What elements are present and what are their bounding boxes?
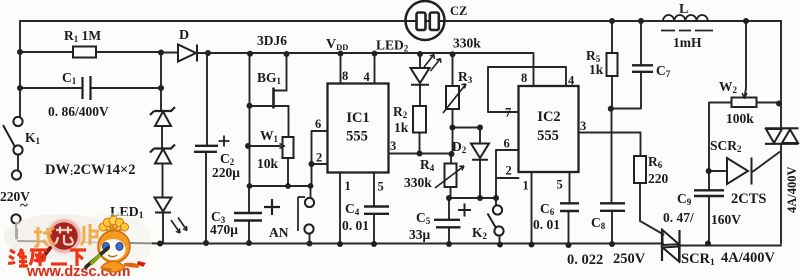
wire C9 column	[708, 171, 710, 244]
diode D2	[471, 144, 489, 160]
wire AN column	[310, 186, 311, 244]
svg-text:W1: W1	[260, 128, 279, 144]
svg-text:C4: C4	[345, 201, 360, 217]
wire IC2 pin3 to R6	[579, 133, 641, 157]
watermark logo	[4, 213, 152, 280]
LED LED1	[155, 198, 172, 213]
capacitor C8	[600, 203, 625, 211]
potentiometer W2	[732, 98, 757, 108]
svg-text:IC1: IC1	[346, 110, 369, 126]
wire C7 column	[640, 21, 642, 108]
wire C3 column	[248, 186, 250, 243]
svg-text:2: 2	[506, 164, 512, 178]
resistor R1	[73, 47, 96, 58]
wire R5 column	[611, 21, 613, 109]
magnifier glass	[49, 221, 80, 252]
thyristor SCR2	[727, 158, 752, 185]
wire R4 bottom	[450, 187, 452, 198]
svg-text:220: 220	[648, 171, 669, 186]
wire IC2 pins 2-6	[496, 150, 519, 198]
svg-text:1mH: 1mH	[673, 35, 702, 50]
capacitor C4	[364, 207, 389, 214]
zener DW1	[150, 107, 175, 115]
svg-text:220μ: 220μ	[212, 165, 240, 180]
wire R2 bottom	[419, 133, 421, 154]
wire K2 leads	[496, 198, 500, 245]
svg-text:C7: C7	[656, 63, 671, 79]
svg-text:3: 3	[580, 119, 586, 133]
potentiometer R3	[446, 86, 459, 109]
capacitor C5	[434, 220, 461, 228]
potentiometer W1	[283, 137, 294, 158]
svg-text:R6: R6	[648, 154, 663, 170]
inductor L	[663, 15, 708, 21]
wire IC1 pins 2-6	[312, 131, 328, 186]
svg-text:0. 86/400V: 0. 86/400V	[48, 104, 109, 119]
polarity plus signs	[219, 136, 472, 217]
svg-text:C1: C1	[62, 70, 77, 86]
svg-text:3: 3	[390, 139, 396, 153]
wire C2 column	[206, 53, 207, 243]
svg-text:160V: 160V	[711, 212, 741, 227]
svg-text:6: 6	[315, 117, 321, 131]
wire IC1 pin4	[374, 53, 376, 84]
svg-text:K1: K1	[25, 130, 41, 146]
svg-text:C8: C8	[591, 215, 606, 231]
wire W1 bottom	[287, 158, 289, 186]
svg-text:555: 555	[537, 128, 559, 144]
resistor R2	[413, 106, 426, 133]
wire R3 D2 link	[453, 127, 481, 129]
svg-text:7: 7	[505, 106, 511, 120]
svg-text:1k: 1k	[394, 120, 409, 135]
svg-text:D2: D2	[452, 139, 467, 155]
svg-text:250V: 250V	[613, 251, 646, 267]
wire D2 column	[479, 128, 481, 199]
svg-text:100k: 100k	[726, 111, 754, 126]
svg-text:~: ~	[20, 198, 28, 214]
capacitor C6	[560, 203, 579, 211]
wire zener column	[161, 88, 163, 244]
svg-text:555: 555	[346, 129, 368, 145]
capacitor C1	[83, 76, 91, 100]
svg-text:4: 4	[568, 74, 575, 88]
wire W2 wiper from rail	[745, 21, 747, 98]
svg-text:2: 2	[316, 151, 322, 165]
svg-text:C5: C5	[416, 210, 431, 226]
svg-text:0. 022: 0. 022	[567, 252, 603, 268]
zener DW2	[150, 145, 175, 153]
wire R1 row	[20, 51, 161, 53]
wire IC2 pin8	[533, 55, 535, 87]
wire R3 column	[451, 55, 453, 164]
capacitor C9	[694, 190, 724, 196]
wire C8 column	[611, 109, 614, 244]
svg-text:C6: C6	[540, 201, 555, 217]
IC IC2 555	[519, 86, 579, 172]
wire K1 top link	[17, 155, 19, 170]
wire LED2 column	[419, 54, 421, 106]
switch K2	[493, 205, 502, 214]
svg-text:5: 5	[557, 178, 563, 192]
svg-text:4A/400V: 4A/400V	[721, 250, 776, 266]
wire top rail	[20, 20, 781, 22]
svg-text:W2: W2	[719, 79, 738, 95]
switch K1	[13, 117, 22, 126]
wire main VDD rail	[161, 52, 534, 88]
resistor R5	[607, 53, 618, 76]
svg-text:IC2: IC2	[537, 109, 560, 125]
svg-text:R2: R2	[393, 104, 408, 120]
svg-text:SCR2: SCR2	[710, 138, 742, 154]
capacitor C3	[234, 213, 262, 221]
svg-text:2CTS: 2CTS	[731, 191, 766, 207]
svg-text:330k: 330k	[453, 36, 481, 51]
wire right edge	[780, 21, 782, 244]
wire gate column	[249, 54, 251, 186]
svg-text:0. 47/: 0. 47/	[663, 210, 694, 225]
svg-text:LED2: LED2	[376, 38, 409, 54]
svg-text:8: 8	[342, 69, 348, 83]
svg-text:1: 1	[523, 179, 529, 193]
svg-text:3DJ6: 3DJ6	[257, 33, 287, 48]
wire W2 left lead	[709, 103, 732, 171]
wire K1 bottom link	[15, 224, 17, 239]
transistor BG1	[272, 88, 275, 109]
svg-text:R4: R4	[420, 157, 435, 173]
svg-text:0. 01: 0. 01	[342, 218, 369, 233]
svg-text:C9: C9	[677, 191, 692, 207]
wire IC1 pin8	[340, 53, 342, 84]
wire IC2 pins 4-7	[488, 67, 566, 112]
wire W1 wiper branch	[248, 145, 279, 147]
svg-text:470μ: 470μ	[210, 222, 238, 237]
svg-text:10k: 10k	[257, 156, 279, 171]
wire bottom rail	[17, 229, 781, 246]
svg-text:VDD: VDD	[326, 37, 348, 52]
svg-text:1: 1	[345, 179, 351, 193]
svg-text:33μ: 33μ	[409, 227, 431, 242]
wire left vertical	[19, 21, 21, 117]
triac SCR1	[662, 229, 680, 263]
weiku text	[8, 249, 86, 266]
svg-text:0. 01: 0. 01	[533, 217, 560, 232]
pian char	[81, 224, 99, 245]
diode D	[178, 45, 197, 62]
svg-text:330k: 330k	[404, 175, 432, 190]
wire IC2 pin1	[531, 172, 533, 245]
resistor R6	[634, 156, 646, 183]
wire node row y186	[250, 185, 312, 187]
svg-text:SCR1: SCR1	[681, 251, 715, 268]
svg-text:BG1: BG1	[257, 70, 282, 86]
svg-text:1k: 1k	[589, 62, 604, 77]
wire R6 to SCR1 gate	[640, 183, 664, 235]
svg-text:R3: R3	[458, 69, 473, 85]
svg-text:4A/400V: 4A/400V	[785, 166, 799, 213]
zhao char	[34, 227, 55, 246]
pushbutton AN	[305, 198, 314, 207]
svg-text:DW:2CW14×2: DW:2CW14×2	[45, 162, 136, 178]
svg-text:6: 6	[504, 137, 510, 151]
mascot	[86, 216, 146, 272]
wire IC1 pin1	[339, 173, 341, 245]
wire IC1 pin5 C4	[373, 173, 375, 245]
capacitor C7	[632, 65, 653, 72]
triac 2CTS	[765, 128, 799, 144]
wire IC2 pin5 C6	[569, 172, 570, 245]
wire C5 column	[448, 198, 450, 244]
LED LED2	[411, 68, 430, 85]
wire IC1 pin3 row	[389, 153, 452, 155]
svg-text:K2: K2	[472, 225, 488, 241]
wire BG1 leads	[249, 54, 289, 137]
socket CZ	[406, 1, 445, 40]
svg-text:CZ: CZ	[450, 4, 467, 18]
IC IC1 555	[328, 84, 389, 173]
wire C7-R5 link	[611, 108, 641, 110]
svg-text:4: 4	[364, 70, 371, 84]
capacitor C2	[194, 146, 218, 152]
wire C1 row	[20, 87, 161, 89]
svg-text:8: 8	[521, 71, 527, 85]
wire W2 right lead	[757, 102, 780, 104]
svg-text:AN: AN	[269, 225, 289, 240]
wire node row y198	[449, 197, 496, 199]
svg-text:D: D	[179, 28, 189, 43]
svg-text:R1 1M: R1 1M	[64, 28, 101, 44]
svg-text:5: 5	[378, 180, 384, 194]
potentiometer R4	[445, 164, 457, 188]
svg-text:L: L	[679, 2, 688, 17]
wire SCR2 leads	[709, 152, 780, 172]
